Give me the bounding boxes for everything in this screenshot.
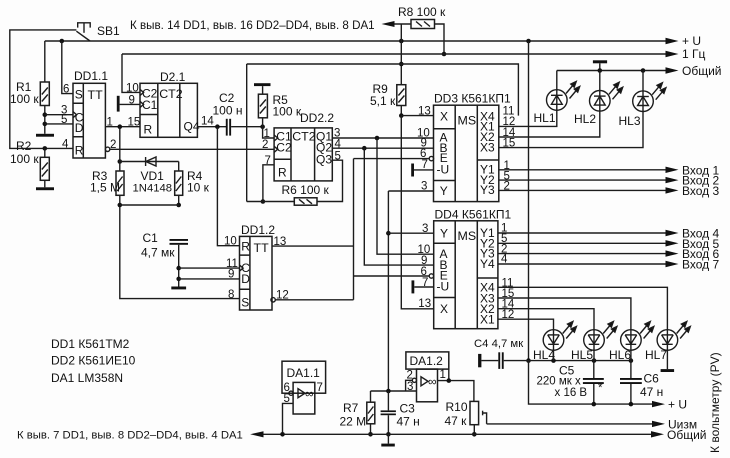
svg-text:MS: MS bbox=[458, 229, 477, 243]
svg-text:DD2 К561ИЕ10: DD2 К561ИЕ10 bbox=[51, 354, 136, 368]
LED HL3 bbox=[633, 83, 666, 112]
wire DD1.2 pin12 bbox=[275, 299, 353, 301]
svg-text:22 М: 22 М bbox=[340, 415, 367, 429]
wire E to DD4 bbox=[354, 275, 430, 277]
svg-text:TT: TT bbox=[88, 88, 104, 102]
svg-text:5,1 к: 5,1 к bbox=[370, 94, 396, 108]
arrow to power pins bottom (left) bbox=[250, 431, 263, 437]
wire DD3 Y pin3 bbox=[388, 190, 433, 192]
arrow Vhod 2 bbox=[666, 177, 679, 183]
svg-text:1: 1 bbox=[440, 369, 446, 381]
counter D2.1 bbox=[140, 83, 200, 137]
wire common bottom rail bbox=[264, 433, 652, 435]
svg-text:13: 13 bbox=[274, 236, 287, 248]
svg-text:C1: C1 bbox=[142, 98, 158, 112]
arrow output Obshchiy bbox=[666, 67, 679, 73]
node R7 bottom bbox=[368, 432, 373, 437]
svg-text:SB1: SB1 bbox=[97, 24, 120, 38]
wire 1 Hz line bbox=[122, 53, 666, 55]
svg-text:TT: TT bbox=[254, 241, 270, 255]
node C tap bbox=[43, 112, 48, 117]
op-amp DA1.2 bbox=[406, 352, 449, 402]
wire DA1.1 pin5 bbox=[283, 403, 294, 434]
resistor R5 bbox=[254, 83, 271, 127]
arrow output 1 Hz bbox=[666, 51, 679, 57]
ground bar DD4 -U bbox=[412, 280, 415, 293]
svg-text:100 к: 100 к bbox=[10, 152, 39, 166]
arrow Vhod 1 bbox=[666, 167, 679, 173]
svg-text:4,7 мк: 4,7 мк bbox=[141, 246, 175, 260]
wire X2 to HL5 bbox=[498, 309, 594, 330]
svg-text:C2: C2 bbox=[276, 141, 292, 155]
wire LED cathode rail bbox=[529, 360, 631, 362]
svg-text:Y: Y bbox=[440, 184, 448, 198]
svg-text:D2.1: D2.1 bbox=[160, 70, 186, 84]
wire DA1.2 output bbox=[438, 381, 474, 402]
ground bar above HL2 bbox=[593, 60, 607, 63]
node R9 bottom / X line bbox=[399, 113, 404, 118]
wire HL5 stub bbox=[593, 350, 595, 360]
svg-text:HL7: HL7 bbox=[645, 348, 667, 362]
wire Y2 output Vhod2 bbox=[499, 179, 666, 181]
node junction +U riser on +U rail bbox=[526, 39, 531, 44]
wire R8 right to 1Hz line bbox=[435, 24, 445, 54]
svg-text:-U: -U bbox=[437, 280, 450, 294]
resistor R8 bbox=[411, 20, 435, 29]
svg-text:R: R bbox=[144, 123, 153, 137]
wire pin1 column to R3 bbox=[119, 127, 121, 171]
svg-text:Вход 3: Вход 3 bbox=[682, 184, 719, 198]
LED HL5 bbox=[584, 322, 617, 351]
wire Y1 output Vhod4 bbox=[498, 232, 666, 234]
wire R9 column to DD4 X pin13 bbox=[401, 116, 433, 309]
svg-text:+ U: + U bbox=[682, 34, 701, 48]
ground bar HL7 bbox=[661, 369, 675, 372]
svg-text:7: 7 bbox=[317, 382, 323, 394]
wire -U stub bbox=[414, 169, 434, 171]
node pin1/R3 column bbox=[118, 124, 123, 129]
resistor R2 bbox=[40, 148, 49, 187]
svg-text:DD4 К561КП1: DD4 К561КП1 bbox=[435, 208, 512, 222]
ground bar at D2.1 pin9 bbox=[117, 96, 120, 112]
node HL3 riser bbox=[641, 68, 646, 73]
wire X4 to HL7 bbox=[498, 287, 668, 329]
svg-text:1,5 М: 1,5 М bbox=[90, 181, 120, 195]
svg-text:Y3: Y3 bbox=[480, 183, 495, 197]
svg-text:Q4: Q4 bbox=[184, 119, 200, 133]
svg-text:VD1: VD1 bbox=[141, 169, 165, 183]
wire A branch to DD4 A bbox=[377, 138, 434, 254]
wire DD1.1 pin1 to D2.1 R bbox=[105, 126, 140, 128]
svg-text:C1: C1 bbox=[143, 231, 159, 245]
arrow Vhod 7 bbox=[666, 261, 679, 267]
wire +U bottom bbox=[529, 361, 653, 405]
svg-text:6: 6 bbox=[420, 148, 426, 160]
svg-text:6: 6 bbox=[63, 84, 69, 96]
wire Q1 to A bbox=[332, 137, 433, 139]
svg-text:DA1.2: DA1.2 bbox=[410, 354, 444, 368]
ground under R1 bbox=[36, 134, 54, 137]
svg-text:DA1.1: DA1.1 bbox=[287, 366, 321, 380]
svg-text:К вольтметру (PV): К вольтметру (PV) bbox=[708, 352, 722, 453]
counter DD2.2 bbox=[274, 128, 332, 181]
wire D pin9 bbox=[179, 278, 240, 280]
arrow Vhod 4 bbox=[666, 230, 679, 236]
svg-text:S: S bbox=[241, 296, 249, 310]
svg-text:220 мк х: 220 мк х bbox=[537, 376, 582, 388]
node C3 bottom bbox=[386, 432, 391, 437]
svg-text:15: 15 bbox=[128, 117, 141, 129]
node HL6 on rail bbox=[629, 358, 634, 363]
wire Y2 output Vhod5 bbox=[498, 242, 666, 244]
node R9 column on feedback line bbox=[399, 62, 404, 67]
arrow +U bottom bbox=[652, 401, 665, 407]
LED HL7 bbox=[657, 322, 690, 351]
arrow output +U bbox=[666, 38, 679, 44]
wire Y3 output Vhod3 bbox=[499, 189, 666, 191]
wire C pin bbox=[45, 114, 73, 116]
svg-text:DD3 К561КП1: DD3 К561КП1 bbox=[434, 92, 511, 106]
wire X4 feedback line bbox=[247, 64, 519, 116]
wire pin9 stub bbox=[120, 103, 140, 105]
resistor R1 bbox=[40, 41, 49, 134]
node R3 bottom bbox=[118, 203, 123, 208]
wire X3 to HL6 bbox=[498, 298, 631, 330]
svg-text:R: R bbox=[75, 144, 84, 158]
node C pin tap bbox=[176, 266, 181, 271]
arrow Vhod 3 bbox=[666, 187, 679, 193]
wire 1Hz to D2.1 pin10 bbox=[122, 54, 140, 92]
svg-text:5: 5 bbox=[61, 114, 67, 126]
wire HL7 to ground bbox=[666, 350, 668, 369]
wire E line DD3 bbox=[354, 158, 430, 160]
svg-text:R2: R2 bbox=[16, 139, 32, 153]
svg-text:Y: Y bbox=[440, 226, 448, 240]
wire HL2 riser bbox=[599, 71, 601, 91]
svg-text:12: 12 bbox=[276, 290, 289, 302]
multiplexer DD4 K561KP1 bbox=[434, 221, 498, 329]
svg-text:DA1 LM358N: DA1 LM358N bbox=[51, 371, 123, 385]
svg-text:100 н: 100 н bbox=[213, 104, 243, 118]
node B branch bbox=[362, 146, 367, 151]
node pin3 / C3 column bbox=[386, 389, 391, 394]
wire left rail to R pin of DD1.1 bbox=[10, 30, 77, 148]
svg-text:DD1.2: DD1.2 bbox=[241, 223, 275, 237]
arrow Obshchiy bottom bbox=[651, 431, 664, 437]
wire X1 to HL4 bbox=[498, 319, 554, 330]
svg-text:S: S bbox=[75, 87, 83, 101]
svg-text:10: 10 bbox=[126, 83, 139, 95]
svg-text:47 н: 47 н bbox=[397, 415, 420, 429]
svg-text:3: 3 bbox=[422, 223, 428, 235]
wire S pin branch bbox=[62, 41, 73, 94]
node DA1.1 pin5 on rail bbox=[280, 432, 285, 437]
wire DA1.2 pin3 line bbox=[371, 390, 417, 392]
svg-text:MS: MS bbox=[458, 114, 477, 128]
wire -U stub DD4 bbox=[414, 286, 433, 288]
svg-text:х 16 В: х 16 В bbox=[555, 387, 588, 399]
node D pin tap bbox=[176, 277, 181, 282]
pushbutton SB1 bbox=[76, 23, 90, 41]
node HL4 on rail bbox=[551, 358, 556, 363]
ground bar under C3 bbox=[381, 444, 395, 447]
svg-text:HL2: HL2 bbox=[574, 112, 596, 126]
wire S pin8 bbox=[120, 205, 240, 299]
svg-text:К выв. 7 DD1, выв. 8 DD2–DD4,: К выв. 7 DD1, выв. 8 DD2–DD4, выв. 4 DA1 bbox=[17, 430, 243, 442]
svg-text:CT2: CT2 bbox=[292, 130, 316, 144]
resistor R6 bbox=[247, 160, 343, 205]
capacitor C4 bbox=[478, 352, 528, 369]
wire Uizm line bbox=[487, 423, 652, 425]
svg-text:X: X bbox=[440, 109, 448, 123]
wire X2 to HL2 bbox=[499, 111, 600, 137]
svg-text:DD2.2: DD2.2 bbox=[300, 111, 334, 125]
wire X1 to HL1 bbox=[499, 110, 557, 126]
node D tap bbox=[43, 122, 48, 127]
svg-text:10 к: 10 к bbox=[187, 181, 210, 195]
multiplexer DD3 K561KP1 bbox=[434, 105, 499, 201]
LED HL2 bbox=[590, 82, 623, 111]
node Y junction DD4 bbox=[386, 231, 391, 236]
node output / box edge bbox=[447, 378, 452, 383]
node R4 bottom bbox=[176, 203, 181, 208]
svg-text:CT2: CT2 bbox=[159, 87, 183, 101]
wire R3-R4 bottom bbox=[120, 204, 179, 206]
capacitor C3 bbox=[381, 391, 396, 434]
wire HL1 riser to common bbox=[556, 71, 558, 90]
svg-text:∞: ∞ bbox=[428, 375, 437, 389]
svg-text:100 к: 100 к bbox=[10, 92, 39, 106]
arrow Uizm bbox=[652, 421, 665, 427]
wire Q4 to C2 cap bbox=[197, 126, 226, 128]
op-amp DA1.1 bbox=[282, 361, 326, 414]
capacitor C5 bbox=[583, 361, 604, 405]
capacitor C2 bbox=[226, 119, 263, 136]
node R10 bottom bbox=[472, 432, 477, 437]
svg-text:Y4: Y4 bbox=[480, 257, 495, 271]
wire +U riser bbox=[528, 41, 530, 361]
svg-text:К выв. 14 DD1, выв. 16 DD2–DD4: К выв. 14 DD1, выв. 16 DD2–DD4, выв. 8 D… bbox=[130, 19, 375, 32]
node HL2 riser bbox=[598, 68, 603, 73]
svg-text:Общий: Общий bbox=[682, 64, 722, 78]
svg-text:-U: -U bbox=[437, 162, 450, 176]
svg-text:1 Гц: 1 Гц bbox=[682, 47, 706, 61]
svg-text:D: D bbox=[75, 121, 84, 135]
LED HL1 bbox=[547, 82, 580, 111]
arrow Vhod 6 bbox=[666, 250, 679, 256]
svg-text:R10: R10 bbox=[446, 400, 468, 414]
svg-text:X: X bbox=[440, 302, 448, 316]
wire R9 to DD3 X pin13 bbox=[401, 115, 433, 117]
svg-text:C3: C3 bbox=[400, 402, 416, 416]
node R5 bottom bbox=[260, 124, 265, 129]
wire common (Obshchiy) top line bbox=[557, 70, 666, 72]
wire B branch to DD4 B bbox=[364, 148, 433, 265]
svg-text:R6 100 к: R6 100 к bbox=[282, 183, 330, 197]
trimmer R10 bbox=[470, 401, 487, 434]
bubble DD4 E bbox=[429, 274, 433, 278]
resistor R7 bbox=[367, 391, 375, 434]
svg-text:X1: X1 bbox=[480, 312, 495, 326]
svg-text:Общий: Общий bbox=[667, 428, 707, 442]
arrow Vhod 5 bbox=[666, 240, 679, 246]
resistor R4 bbox=[175, 162, 183, 206]
capacitor C6 bbox=[620, 361, 642, 405]
svg-text:47 н: 47 н bbox=[640, 385, 663, 399]
wire to DD2.2 C1 pin bbox=[263, 127, 275, 138]
svg-text:4: 4 bbox=[62, 138, 69, 150]
svg-text:+ U: + U bbox=[668, 398, 687, 412]
node VD1 top bbox=[118, 159, 123, 164]
svg-text:R7: R7 bbox=[343, 401, 359, 415]
svg-text:*: * bbox=[598, 383, 603, 395]
node junction S-branch on +U rail bbox=[60, 39, 65, 44]
svg-text:R8 100 к: R8 100 к bbox=[398, 5, 446, 19]
svg-text:X3: X3 bbox=[480, 141, 495, 155]
svg-text:HL1: HL1 bbox=[534, 111, 556, 125]
svg-text:1N4148: 1N4148 bbox=[133, 183, 173, 195]
wire DD4 Y pin3 bbox=[386, 232, 434, 234]
wire D pin bbox=[45, 123, 73, 125]
capacitor C1 bbox=[170, 239, 189, 287]
node C4 / LED rail bbox=[526, 358, 531, 363]
wire E column bbox=[353, 159, 355, 300]
ground bar DD3 -U bbox=[411, 164, 414, 177]
svg-text:Q3: Q3 bbox=[316, 153, 332, 167]
node A branch bbox=[375, 136, 380, 141]
wire DD1.1 pin2 to DD2.2 C2 bbox=[110, 148, 274, 150]
wire Q2 to B bbox=[332, 147, 433, 149]
node HL5 on rail bbox=[592, 358, 597, 363]
node junction R8/R9 column on +U rail bbox=[399, 39, 404, 44]
wire X3 to HL3 bbox=[499, 112, 643, 148]
node R6 line pin7 bbox=[261, 199, 266, 204]
wire arrow to R8 bbox=[395, 23, 412, 25]
ground stub under C3 bbox=[387, 434, 389, 443]
bubble DD1.2 pin12 bbox=[271, 298, 275, 302]
svg-text:HL3: HL3 bbox=[619, 114, 641, 128]
svg-text:DD1.1: DD1.1 bbox=[74, 69, 108, 83]
node R2 tap on R line bbox=[43, 146, 48, 151]
inversion bubble pin 2 bbox=[105, 147, 109, 151]
ground under C1 bbox=[171, 287, 186, 290]
svg-text:47 к: 47 к bbox=[445, 414, 468, 428]
node R8 on 1Hz line bbox=[442, 52, 447, 57]
wire ground stub bbox=[599, 63, 601, 70]
svg-text:R: R bbox=[278, 166, 287, 180]
wire R8/R9 column bbox=[400, 24, 402, 85]
flip-flop DD1.1 bbox=[73, 83, 105, 158]
svg-text:DD1 К561ТМ2: DD1 К561ТМ2 bbox=[51, 337, 130, 351]
wire Y4 output Vhod7 bbox=[498, 263, 666, 265]
node DD1.2 R column bbox=[215, 124, 220, 129]
wire +U rail bbox=[45, 40, 666, 42]
diode VD1 bbox=[120, 157, 179, 166]
node C6 bottom bbox=[629, 402, 634, 407]
wire HL4 stub bbox=[553, 350, 555, 360]
svg-text:∞: ∞ bbox=[305, 387, 314, 401]
node C5 bottom bbox=[592, 402, 597, 407]
wire DD1.2 pin13 bbox=[272, 245, 354, 247]
wire Y1 output Vhod1 bbox=[499, 169, 666, 171]
wire DD1.2 R pin10 bbox=[217, 127, 239, 246]
resistor R3 bbox=[116, 171, 124, 205]
flip-flop DD1.2 bbox=[240, 236, 273, 310]
LED HL6 bbox=[621, 322, 654, 351]
svg-text:1: 1 bbox=[264, 128, 270, 140]
svg-text:100 к: 100 к bbox=[273, 105, 302, 119]
svg-text:D: D bbox=[241, 272, 250, 286]
svg-text:C4 4,7 мк: C4 4,7 мк bbox=[474, 338, 523, 350]
svg-text:13: 13 bbox=[418, 105, 431, 117]
wire HL3 riser bbox=[642, 71, 644, 92]
svg-text:Вход 7: Вход 7 bbox=[682, 258, 719, 272]
wire label box edge to output bbox=[448, 369, 450, 381]
arrow to power pins (left) bbox=[382, 21, 395, 27]
svg-text:C6: C6 bbox=[644, 372, 660, 386]
resistor R9 bbox=[397, 85, 406, 116]
svg-text:2: 2 bbox=[262, 139, 268, 151]
ground under R2 bbox=[36, 187, 54, 190]
wire DA1.2 pin2 feedback bbox=[406, 380, 413, 391]
wire DD2.2 R pin7 bbox=[263, 165, 274, 202]
wire C pin11 bbox=[179, 267, 240, 269]
wire Y3 output Vhod6 bbox=[498, 253, 666, 255]
wire HL6 stub bbox=[630, 350, 632, 360]
svg-text:13: 13 bbox=[418, 298, 431, 310]
LED HL4 bbox=[543, 322, 576, 351]
wire Y column bbox=[387, 191, 389, 391]
svg-text:R: R bbox=[241, 240, 250, 254]
wire feedback down to R6 bbox=[246, 64, 248, 202]
bubble DD3 E bbox=[429, 156, 433, 160]
